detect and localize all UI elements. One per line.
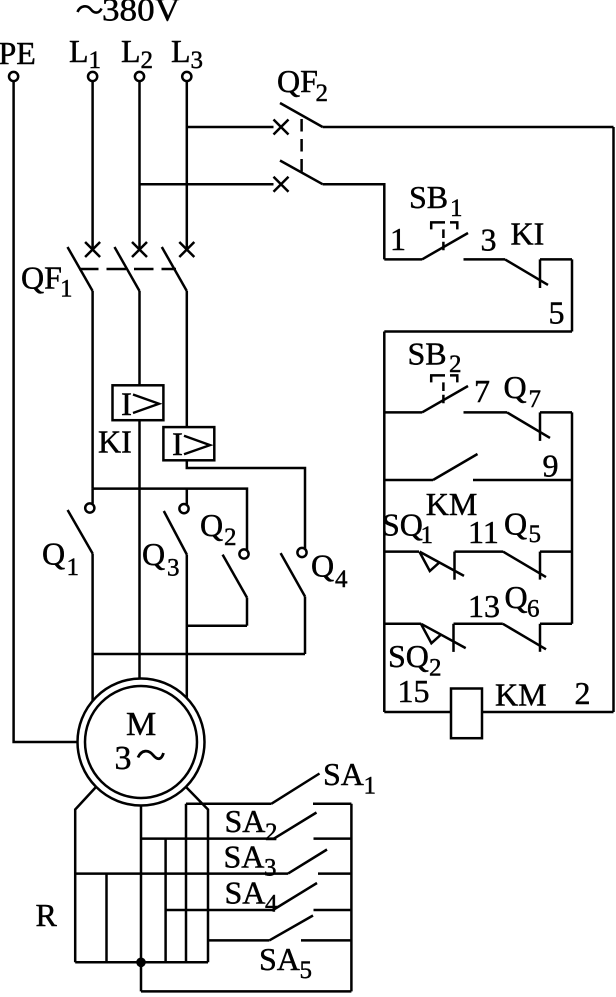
wire rung5 right bbox=[482, 711, 614, 714]
switch SA1 bbox=[186, 774, 351, 804]
breaker QF2 pole2 fixed contact x bbox=[274, 177, 289, 192]
wire L1 vertical to QF1 bbox=[91, 81, 94, 248]
wire tie Q1-Q4 bbox=[93, 653, 305, 656]
svg-text:SA: SA bbox=[225, 803, 266, 839]
svg-text:SA: SA bbox=[224, 839, 265, 875]
wire motor bottom-right bbox=[186, 787, 208, 962]
switch SA5 label bbox=[259, 941, 312, 984]
wire L2 below QF1 to KI element bbox=[138, 291, 141, 385]
junction dot bbox=[136, 958, 146, 968]
wire QF2 pole2 output bbox=[323, 184, 385, 259]
switch Q3 label bbox=[142, 536, 180, 582]
switch SA1 label bbox=[323, 756, 376, 800]
breaker QF1 pole3 blade bbox=[162, 247, 187, 291]
svg-text:2: 2 bbox=[449, 351, 462, 378]
svg-text:SQ: SQ bbox=[388, 638, 429, 674]
svg-text:M: M bbox=[126, 706, 156, 743]
svg-text:1: 1 bbox=[60, 276, 73, 303]
wire Q2 output bbox=[246, 598, 249, 626]
limit switch SQ2 bar bbox=[452, 624, 455, 652]
wire Q7 to rail bbox=[540, 411, 572, 414]
wire rung1 bottom bbox=[384, 330, 572, 333]
svg-text:13: 13 bbox=[468, 588, 500, 624]
contact Q5 bar bbox=[539, 552, 542, 580]
switch SA4 bbox=[166, 883, 352, 910]
breaker QF1 pole1 blade bbox=[68, 247, 93, 291]
wire QF2 pole1 output to right rail bbox=[323, 126, 614, 129]
terminal L3 bbox=[171, 33, 203, 81]
wire Q3 output to motor bbox=[186, 555, 189, 699]
overcurrent relay KI element 2 (I>) bbox=[163, 427, 214, 463]
svg-text:PE: PE bbox=[0, 35, 36, 71]
switch Q4 label bbox=[311, 548, 348, 594]
svg-text:SQ: SQ bbox=[382, 507, 423, 543]
wire QF2 pole1 from L3 bbox=[187, 126, 274, 129]
svg-text:2: 2 bbox=[265, 819, 278, 846]
breaker QF2 linkage dashed bbox=[300, 119, 303, 173]
svg-text:2: 2 bbox=[429, 655, 442, 682]
switch Q2 label bbox=[200, 507, 237, 551]
wire PE down and to motor frame bbox=[14, 81, 78, 742]
wire tie Q3-Q2 bbox=[187, 624, 247, 627]
terminal L1 bbox=[69, 33, 101, 81]
wire Q6 to rail bbox=[540, 623, 572, 626]
pushbutton SB2 label bbox=[408, 336, 462, 379]
contact Q7 label bbox=[504, 369, 542, 413]
svg-text:KM: KM bbox=[495, 677, 547, 713]
breaker QF2 pole2 blade bbox=[280, 161, 323, 185]
limit switch SQ1 bar bbox=[453, 552, 456, 580]
svg-text:QF: QF bbox=[21, 260, 62, 296]
wire node 7 bbox=[464, 411, 508, 414]
switch SA4 label bbox=[225, 875, 279, 918]
breaker QF1 pole2 blade bbox=[115, 247, 140, 291]
wire L3 below QF1 to KI element bbox=[186, 291, 189, 427]
svg-text:5: 5 bbox=[529, 521, 542, 548]
contact Q6 label bbox=[505, 579, 540, 623]
contact Q5 blade bbox=[503, 552, 546, 578]
terminal PE bbox=[0, 35, 36, 81]
wire L1 below QF1 bbox=[91, 291, 94, 489]
svg-text:7: 7 bbox=[474, 373, 490, 409]
switch Q4 bbox=[281, 548, 307, 597]
breaker QF2 pole1 fixed contact x bbox=[274, 120, 289, 135]
svg-text:11: 11 bbox=[468, 514, 499, 550]
relay contact KI blade bbox=[505, 259, 548, 285]
wire stub to Q1 bbox=[91, 489, 94, 504]
pushbutton SB2 blade bbox=[422, 386, 468, 412]
contact Q7 bar bbox=[539, 412, 542, 441]
svg-text:5: 5 bbox=[549, 295, 565, 331]
wire Q1 output to motor bbox=[91, 554, 94, 702]
pushbutton SB1 stem dashed bbox=[442, 229, 445, 250]
resistor R tap to SA1 bbox=[185, 804, 188, 963]
limit switch SQ2 label bbox=[388, 638, 442, 682]
wire L1 feed bus to Q1 Q3 Q2 bbox=[93, 489, 247, 550]
svg-text:7: 7 bbox=[529, 386, 542, 413]
svg-text:3: 3 bbox=[167, 555, 180, 582]
breaker QF2 label bbox=[277, 63, 328, 107]
svg-text:Q: Q bbox=[504, 369, 527, 405]
breaker QF1 linkage dashed bbox=[79, 268, 176, 271]
resistor bank R outline bbox=[75, 872, 288, 875]
svg-text:L: L bbox=[69, 33, 89, 69]
wire node 3 bbox=[464, 258, 506, 261]
breaker QF2 pole1 blade bbox=[280, 103, 323, 127]
wire L3 from KI to Q4 feed bbox=[187, 460, 305, 548]
pushbutton SB2 stem dashed bbox=[442, 382, 445, 403]
resistor R tap to SA2 bbox=[164, 839, 167, 963]
svg-text:1: 1 bbox=[421, 522, 434, 549]
switch SA2 label bbox=[225, 803, 278, 846]
svg-text:380V: 380V bbox=[102, 0, 180, 29]
svg-text:Q: Q bbox=[42, 536, 65, 572]
switch SA2 bbox=[141, 813, 351, 839]
svg-text:3: 3 bbox=[481, 222, 497, 258]
wire rung2 bottom right bbox=[473, 479, 572, 482]
relay contact KI bar bbox=[539, 259, 542, 288]
breaker QF1 pole2 fixed contact x bbox=[132, 242, 147, 257]
svg-text:KI: KI bbox=[511, 216, 545, 252]
svg-text:SB: SB bbox=[409, 179, 448, 215]
svg-text:3: 3 bbox=[191, 47, 204, 74]
wire Q5 to rail bbox=[540, 550, 572, 553]
wire L3 vertical to QF1 bbox=[186, 81, 189, 248]
svg-text:1: 1 bbox=[450, 195, 463, 222]
terminal L2 bbox=[121, 33, 153, 81]
svg-text:1: 1 bbox=[390, 221, 406, 257]
wire Q4 output bbox=[304, 597, 307, 655]
wire control left rail bbox=[383, 332, 386, 713]
svg-text:I: I bbox=[172, 427, 183, 463]
svg-text:L: L bbox=[171, 33, 191, 69]
limit switch SQ1 wedge bbox=[420, 552, 440, 571]
svg-text:Q: Q bbox=[142, 536, 165, 572]
contact Q7 blade bbox=[507, 412, 550, 438]
wire rung2 left bbox=[384, 411, 422, 414]
switch Q3 bbox=[164, 504, 189, 555]
breaker QF1 pole1 fixed contact x bbox=[85, 242, 100, 257]
wire motor bottom-middle bbox=[140, 806, 143, 992]
svg-text:6: 6 bbox=[527, 596, 540, 623]
wire control far right return bbox=[612, 127, 615, 712]
pushbutton SB1 label bbox=[409, 179, 463, 222]
switch SA3 bbox=[288, 850, 351, 874]
limit switch SQ1 blade bbox=[420, 552, 465, 576]
pushbutton SB1 blade bbox=[422, 233, 468, 259]
net label ~380V bbox=[78, 0, 181, 29]
contactor coil KM bbox=[451, 689, 482, 739]
svg-text:15: 15 bbox=[398, 673, 430, 709]
pushbutton SB1 cap bbox=[430, 222, 459, 229]
svg-text:1: 1 bbox=[89, 47, 102, 74]
svg-text:2: 2 bbox=[141, 47, 154, 74]
limit switch SQ2 blade bbox=[421, 624, 466, 648]
svg-text:R: R bbox=[36, 897, 58, 933]
svg-text:2: 2 bbox=[575, 675, 591, 711]
contact Q5 label bbox=[504, 506, 541, 549]
wire rung2 bottom left bbox=[384, 479, 433, 482]
wire rung1 left bbox=[384, 258, 422, 261]
switch Q1 bbox=[68, 503, 95, 553]
wire control right rail rung2-4 bbox=[571, 412, 574, 623]
svg-text:KI: KI bbox=[98, 424, 132, 460]
wire motor bottom-left to R box bbox=[75, 787, 96, 962]
svg-text:Q: Q bbox=[311, 548, 334, 584]
svg-text:2: 2 bbox=[224, 524, 237, 551]
overcurrent relay KI element 1 (I>) bbox=[113, 385, 164, 423]
svg-text:SA: SA bbox=[259, 941, 300, 977]
wire node 11 bbox=[455, 550, 504, 553]
breaker QF1 label bbox=[21, 260, 73, 303]
wire node 13 bbox=[454, 623, 503, 626]
pushbutton SB2 cap bbox=[430, 375, 459, 382]
svg-text:3: 3 bbox=[264, 855, 277, 882]
limit switch SQ1 label bbox=[382, 507, 433, 550]
svg-text:SA: SA bbox=[323, 756, 364, 792]
svg-text:9: 9 bbox=[543, 448, 559, 484]
wire SA right rail bbox=[350, 804, 353, 992]
svg-text:SB: SB bbox=[408, 336, 447, 372]
wire rung4 left bbox=[384, 623, 421, 626]
svg-text:QF: QF bbox=[277, 63, 318, 99]
svg-text:Q: Q bbox=[200, 507, 223, 543]
svg-text:L: L bbox=[121, 33, 141, 69]
svg-text:4: 4 bbox=[265, 891, 278, 918]
wire L2 vertical to QF1 bbox=[138, 81, 141, 248]
resistor R divider 1 bbox=[105, 874, 108, 963]
motor M 3~ bbox=[78, 679, 205, 806]
svg-text:4: 4 bbox=[335, 566, 348, 593]
wire control right rail rung1 bbox=[571, 259, 574, 331]
switch Q2 bbox=[223, 549, 249, 597]
svg-text:5: 5 bbox=[300, 957, 313, 984]
svg-text:Q: Q bbox=[504, 506, 527, 542]
switch SA3 label bbox=[224, 839, 277, 882]
switch Q1 label bbox=[42, 536, 79, 582]
switch SA5 bbox=[208, 916, 351, 941]
svg-text:1: 1 bbox=[364, 773, 377, 800]
contact Q6 bar bbox=[539, 624, 542, 652]
svg-text:I: I bbox=[121, 387, 132, 423]
contactor contact KM blade bbox=[433, 454, 478, 480]
wire rung5 left bbox=[384, 711, 451, 714]
contact Q6 blade bbox=[503, 624, 546, 650]
svg-text:3: 3 bbox=[115, 740, 132, 777]
breaker QF1 pole3 fixed contact x bbox=[179, 242, 194, 257]
wire bottom bus to SA rail bbox=[141, 990, 351, 993]
wire L2 from KI to motor bbox=[138, 420, 141, 678]
svg-text:SA: SA bbox=[225, 875, 266, 911]
wire QF2 pole2 from L2 bbox=[140, 183, 274, 186]
svg-text:2: 2 bbox=[316, 80, 329, 107]
wire rung3 left bbox=[384, 550, 419, 553]
limit switch SQ2 wedge bbox=[421, 624, 441, 643]
svg-text:Q: Q bbox=[505, 579, 528, 615]
wire stub to Q3 bbox=[186, 489, 189, 505]
wire KI to rail bbox=[540, 258, 572, 261]
svg-text:1: 1 bbox=[67, 554, 80, 581]
